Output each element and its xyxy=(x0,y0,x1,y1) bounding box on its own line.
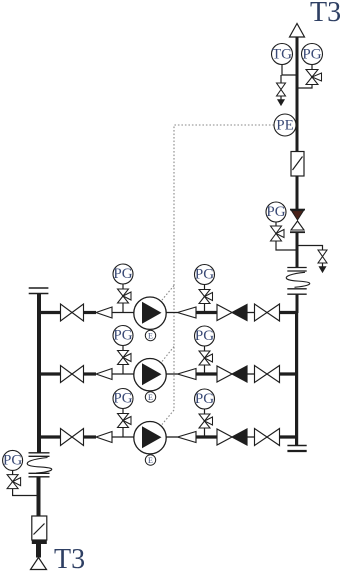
wire PG stem xyxy=(122,427,124,437)
valve V3a (suction shutoff) xyxy=(61,429,84,446)
pump P2 xyxy=(134,359,166,391)
svg-text:E: E xyxy=(148,393,153,402)
flexible connector (vibration absorber) right xyxy=(286,268,310,295)
pressure gauge PG circle xyxy=(195,326,215,346)
valve V3b (discharge shutoff) xyxy=(255,429,280,446)
check valve row 3 xyxy=(217,429,247,445)
svg-text:PG: PG xyxy=(302,46,321,62)
gauge cock valve xyxy=(306,70,322,85)
svg-text:PG: PG xyxy=(113,391,132,407)
vent valve xyxy=(277,83,286,96)
gauge cock valve xyxy=(271,226,285,241)
pump P3 xyxy=(134,422,166,454)
svg-text:TG: TG xyxy=(272,46,292,62)
pressure gauge PG circle xyxy=(113,264,133,284)
valve V2a (suction shutoff) xyxy=(61,366,84,383)
pressure gauge PG circle xyxy=(266,202,286,222)
pressure gauge PG circle xyxy=(195,389,215,409)
filter F1 xyxy=(291,152,304,177)
wire: inlet stub xyxy=(36,544,41,558)
svg-text:E: E xyxy=(148,456,153,465)
wire: bottom inlet pipe xyxy=(37,477,41,516)
gauge cock valve xyxy=(118,289,132,303)
wire TG connection xyxy=(282,65,297,76)
svg-text:E: E xyxy=(148,332,153,341)
wire PG stem xyxy=(204,303,206,313)
pressure gauge PG circle xyxy=(113,326,133,346)
pump P1 xyxy=(134,297,166,329)
wire row 2 xyxy=(39,372,297,375)
svg-text:PG: PG xyxy=(195,267,214,283)
pressure sensor PE circle xyxy=(274,114,296,136)
wire PG stem xyxy=(122,303,124,313)
svg-text:T3: T3 xyxy=(54,544,85,573)
wire PG top connection xyxy=(311,65,313,70)
wire: right discharge header xyxy=(295,313,298,445)
flexible connector (vibration absorber) left xyxy=(27,453,52,477)
wire row 1 xyxy=(39,311,297,314)
flow arrow from T3 xyxy=(31,558,47,570)
valve V1a (suction shutoff) xyxy=(61,304,84,321)
diffuser row 1 xyxy=(178,307,197,318)
wire PG bottom connection xyxy=(12,471,14,475)
motor E of pump P1 xyxy=(145,330,155,340)
gauge cock valve xyxy=(199,414,213,428)
gauge cock valve xyxy=(199,351,213,365)
gauge cock valve xyxy=(118,414,132,428)
pressure gauge PG circle xyxy=(302,44,323,65)
flow arrow to T3 xyxy=(290,24,305,38)
svg-text:PG: PG xyxy=(113,328,132,344)
filter F2 (inlet strainer) xyxy=(32,516,47,544)
drain arrow xyxy=(278,96,285,106)
check valve row 2 xyxy=(217,366,247,382)
pressure gauge PG circle xyxy=(195,265,215,285)
svg-text:PG: PG xyxy=(195,328,214,344)
wire: left suction header xyxy=(29,288,49,294)
check valve row 1 xyxy=(217,305,247,321)
svg-text:PE: PE xyxy=(276,118,294,134)
diffuser row 2 xyxy=(178,369,197,380)
wire PG stem xyxy=(204,365,206,375)
vent valve xyxy=(318,250,327,263)
wire: main riser pipe segments xyxy=(296,37,299,314)
wire drain branch xyxy=(297,246,323,251)
pressure gauge PG circle xyxy=(3,450,23,470)
drain arrow xyxy=(319,263,326,273)
valve V1b (discharge shutoff) xyxy=(255,304,280,321)
gauge cock valve xyxy=(118,351,132,365)
gauge cock valve xyxy=(199,290,213,304)
wire PG stem xyxy=(204,428,206,438)
svg-text:PG: PG xyxy=(113,266,132,282)
wire vent branch xyxy=(280,75,282,83)
control signal dashed line from PE to pumps xyxy=(162,125,274,425)
thermometer TG circle xyxy=(272,44,293,65)
reducer row 1 xyxy=(96,307,112,318)
motor E of pump P3 xyxy=(145,455,155,465)
check valve (spring loaded) xyxy=(290,210,305,233)
svg-text:PG: PG xyxy=(3,453,22,469)
wire PG stem xyxy=(122,364,124,374)
motor E of pump P2 xyxy=(145,392,155,402)
pressure gauge PG circle xyxy=(113,389,133,409)
svg-text:PG: PG xyxy=(266,204,285,220)
wire PG mid connection xyxy=(275,222,277,226)
diffuser row 3 xyxy=(178,432,197,443)
reducer row 2 xyxy=(96,369,112,380)
gauge cock valve xyxy=(7,475,21,489)
wire row 3 xyxy=(39,435,297,438)
svg-text:T3: T3 xyxy=(310,0,341,28)
reducer row 3 xyxy=(96,432,112,443)
valve V2b (discharge shutoff) xyxy=(255,366,280,383)
svg-text:PG: PG xyxy=(195,391,214,407)
